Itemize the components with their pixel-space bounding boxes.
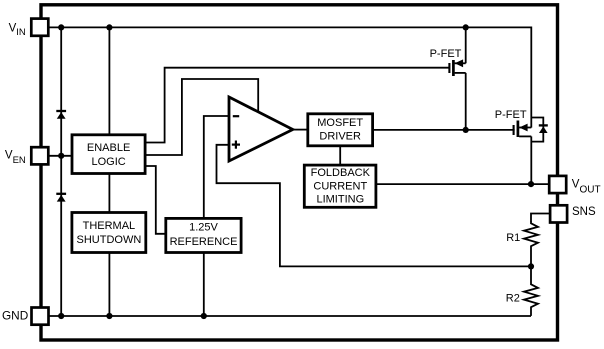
wire enable logic to thermal shutdown	[108, 174, 110, 213]
resistor R1	[524, 222, 538, 267]
svg-text:REFERENCE: REFERENCE	[170, 236, 238, 248]
wire thermal shutdown to ground rail	[108, 253, 110, 317]
diode D2 GND to V_EN clamp	[56, 194, 66, 202]
junction dot V_OUT node	[528, 181, 534, 187]
block FOLDBACK CURRENT LIMITING	[304, 165, 376, 207]
junction dot V_IN rail / clamp column	[58, 24, 64, 30]
junction dot ground rail / clamp column	[58, 313, 64, 319]
wire non-inverting input to feedback node	[217, 145, 532, 267]
svg-text:SHUTDOWN: SHUTDOWN	[77, 234, 142, 246]
wire SNS to R1	[531, 214, 550, 223]
wire enable logic to error amplifier	[145, 79, 258, 155]
svg-text:1.25V: 1.25V	[189, 222, 218, 234]
junction dot ground rail / reference column	[201, 313, 207, 319]
svg-text:SNS: SNS	[572, 206, 596, 218]
pin V_EN	[31, 147, 48, 164]
junction dot driver output / Q1 drain	[463, 127, 469, 133]
svg-text:GND: GND	[2, 308, 28, 322]
wire MOSFET driver to foldback	[339, 146, 341, 165]
svg-text:ENABLE: ENABLE	[87, 142, 130, 154]
block 1.25V REFERENCE	[166, 218, 241, 252]
junction dot V_EN wire	[58, 153, 64, 159]
transistor Q2 P-FET pass element	[514, 121, 532, 138]
wire V_IN rail to Q2 source	[48, 27, 531, 127]
op-amp non-inverting input symbol	[232, 141, 240, 149]
pin SNS	[550, 205, 567, 222]
junction dot V_IN rail / enable column	[106, 24, 112, 30]
wire ground rail	[48, 315, 531, 317]
resistor R2	[524, 266, 538, 316]
wire Q2 body diode loop	[531, 118, 543, 142]
block MOSFET DRIVER	[308, 114, 373, 146]
svg-text:P-FET: P-FET	[430, 48, 462, 60]
junction dot ground rail / thermal column	[106, 313, 112, 319]
wire foldback output to V_OUT	[376, 183, 549, 185]
pin V_IN	[31, 19, 48, 36]
body diode D3	[539, 125, 548, 133]
pin GND	[32, 308, 49, 325]
junction dot V_IN rail / Q1 source	[463, 24, 469, 30]
wire clamp diode column	[60, 27, 62, 316]
pin V_OUT	[549, 176, 566, 193]
wire enable logic to reference	[145, 166, 166, 234]
wire enable logic to Q1 gate	[145, 68, 448, 143]
op-amp U1 error amplifier	[229, 97, 293, 161]
wire inverting input to reference	[204, 116, 229, 218]
wire Q1 source	[465, 27, 467, 63]
wire Q2 drain to output node	[530, 136, 532, 184]
transistor Q1 P-FET	[449, 59, 465, 76]
op-amp inverting input symbol	[233, 115, 239, 117]
svg-text:DRIVER: DRIVER	[319, 130, 361, 142]
wire MOSFET driver output to gates	[373, 129, 515, 131]
wire V_IN to enable logic top	[108, 27, 110, 134]
wire V_EN to enable logic	[48, 155, 73, 157]
junction dot feedback node R1/R2	[528, 263, 534, 269]
svg-text:CURRENT: CURRENT	[313, 180, 367, 192]
svg-text:THERMAL: THERMAL	[83, 220, 136, 232]
svg-text:LOGIC: LOGIC	[91, 156, 125, 168]
block THERMAL SHUTDOWN	[72, 213, 146, 253]
svg-text:VIN: VIN	[9, 22, 26, 38]
diode D1 V_EN to V_IN clamp	[56, 111, 66, 119]
svg-text:LIMITING: LIMITING	[316, 194, 364, 206]
wire error amplifier output to MOSFET driver	[292, 129, 308, 131]
svg-text:FOLDBACK: FOLDBACK	[311, 167, 371, 179]
svg-text:R1: R1	[506, 232, 520, 244]
wire reference to ground rail	[203, 253, 205, 317]
svg-text:P-FET: P-FET	[495, 109, 527, 121]
svg-text:VEN: VEN	[5, 149, 26, 166]
svg-text:R2: R2	[506, 293, 520, 305]
wire Q1 drain	[465, 73, 467, 130]
svg-text:VOUT: VOUT	[572, 179, 601, 196]
svg-text:MOSFET: MOSFET	[317, 117, 363, 129]
block ENABLE LOGIC	[72, 135, 145, 174]
